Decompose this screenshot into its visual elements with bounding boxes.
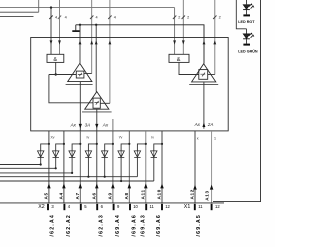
main block U10 [31, 38, 229, 131]
LED ROT pad [243, 14, 250, 16]
wire name labels below [49, 214, 202, 236]
bus slash W1 [173, 16, 176, 20]
terminal ticks [48, 204, 212, 210]
amp T3 [192, 64, 216, 82]
bus slash W2 [182, 16, 185, 20]
svg-text:Iv: Iv [87, 135, 90, 139]
node d3 [79, 143, 81, 145]
bus rail L2 [0, 167, 56, 169]
wire stub top-left [38, 0, 40, 12]
terminal row line [0, 202, 224, 204]
bus rail L4 [0, 176, 137, 178]
arrow out T2 [95, 40, 98, 44]
node d2 [63, 143, 65, 145]
svg-text:LED GRÜN: LED GRÜN [238, 49, 258, 54]
node d6 [128, 143, 130, 145]
slash count labels [55, 15, 221, 19]
svg-text:X2: X2 [38, 204, 45, 210]
wire bus-duct line y12 [0, 11, 39, 13]
diode D6 [121, 144, 129, 151]
node rail B T2 [95, 24, 97, 26]
node U1out [55, 73, 57, 75]
ground symbol [75, 25, 77, 31]
LED GRUEN pad [243, 44, 250, 46]
arrow out T1 [79, 40, 82, 44]
svg-text:Ax: Ax [70, 122, 77, 127]
node d7 [145, 143, 147, 145]
svg-text:12: 12 [165, 204, 170, 209]
svg-text:2: 2 [178, 15, 180, 19]
wire W1 from rail A corner [174, 8, 176, 55]
svg-text:11: 11 [198, 204, 203, 209]
svg-text:/62.A2: /62.A2 [66, 214, 72, 236]
svg-text:A11: A11 [140, 189, 145, 199]
arrow T3 up [202, 123, 205, 128]
svg-text:A6: A6 [91, 192, 96, 199]
bus rail L5 [0, 180, 154, 182]
svg-text:/69.A4: /69.A4 [115, 214, 121, 236]
node d8 [161, 143, 163, 145]
wire T3 right input [208, 74, 215, 76]
wire T2 base down [96, 109, 98, 131]
wire ch1 [48, 131, 50, 203]
bus slash W6 [213, 16, 216, 20]
wire W_a into AND U1 [50, 8, 52, 55]
svg-text:&: & [53, 57, 57, 63]
arrow in W1 [173, 40, 176, 44]
arrow ch3 down [79, 124, 82, 129]
svg-text:A10: A10 [157, 189, 162, 200]
svg-text:A5: A5 [44, 192, 49, 199]
wire ch7 [145, 131, 147, 203]
wire bus-duct line y16 [0, 16, 34, 18]
wire T1 base down [79, 82, 81, 131]
svg-text:4: 4 [55, 15, 57, 19]
amp T1 [68, 63, 92, 81]
diode D7 [137, 144, 145, 151]
wire T1 right input [84, 73, 92, 75]
wire X1 ch9 [194, 131, 196, 203]
LED GRUEN wire [246, 29, 248, 34]
diode center lines [40, 151, 42, 157]
wire T3 base down [203, 82, 205, 129]
wire W2 top [182, 0, 184, 54]
wire T2 output up [95, 25, 97, 92]
wire T1 feed [49, 74, 77, 76]
amp T2 [85, 92, 109, 110]
arrow in W_a [50, 40, 53, 44]
arrow out T3 [203, 40, 206, 44]
svg-text:&: & [177, 57, 181, 63]
A labels rotated [44, 189, 210, 201]
svg-text:4: 4 [65, 15, 67, 19]
svg-text:11: 11 [150, 204, 155, 209]
svg-text:A8: A8 [124, 192, 129, 199]
svg-text:1: 1 [214, 137, 216, 141]
terminal arrows above line [47, 183, 51, 188]
svg-text:Xv: Xv [51, 135, 55, 139]
wire ch4 [96, 131, 98, 203]
svg-text:/69.A3: /69.A3 [140, 214, 146, 236]
arrow out W6 [213, 40, 216, 44]
bus slash W_a [49, 16, 52, 20]
svg-text:x: x [197, 137, 199, 141]
svg-text:X1: X1 [184, 204, 191, 210]
svg-text:Ax: Ax [102, 122, 109, 127]
svg-text:4: 4 [96, 15, 98, 19]
wire ch5 stub [112, 119, 114, 131]
svg-text:Ax: Ax [194, 122, 201, 127]
wire T2 right input [100, 102, 110, 104]
LED ROT wire [246, 0, 248, 4]
bus slash W5 [108, 16, 111, 20]
wire U2 output [179, 62, 199, 74]
arrow in W_b [58, 40, 61, 44]
diode D3 [72, 144, 80, 151]
bus slash W3 [90, 16, 93, 20]
diode D5 [105, 144, 113, 151]
diode D8 [154, 144, 162, 151]
arrow ch4 down [95, 124, 98, 129]
inner box T1 [76, 71, 84, 78]
right border frame [213, 0, 261, 202]
svg-text:A12: A12 [190, 189, 195, 200]
wire to T2 feed [49, 75, 93, 103]
terminal labels [38, 204, 220, 210]
svg-text:/62.A4: /62.A4 [49, 214, 55, 236]
svg-text:LED ROT: LED ROT [238, 20, 255, 24]
svg-text:2: 2 [187, 15, 189, 19]
svg-text:4: 4 [114, 15, 116, 19]
svg-text:10: 10 [133, 204, 138, 209]
ground rail B [76, 25, 204, 64]
node d5 [112, 143, 114, 145]
wire ch2 [63, 131, 65, 203]
diode D4 [88, 144, 96, 151]
node rail B T1 [79, 24, 81, 26]
svg-text:12: 12 [215, 204, 220, 209]
svg-text:2: 2 [219, 15, 221, 19]
bus rail L3 [0, 172, 72, 174]
AND gate U1 [47, 54, 64, 62]
diode D2 [56, 144, 64, 151]
inner box T2 [93, 98, 100, 108]
svg-text:/69.A5: /69.A5 [196, 214, 202, 236]
AND gate U2 [169, 54, 189, 62]
node d4 [96, 143, 98, 145]
wire ch3 [79, 131, 81, 203]
LED GRUEN [243, 34, 250, 39]
inner box T3 [199, 70, 208, 80]
arrow out W3 [90, 40, 93, 44]
svg-text:A7: A7 [75, 192, 80, 199]
bus slash W_b [58, 16, 61, 20]
svg-text:/69.A6: /69.A6 [156, 214, 162, 236]
wire T1 output up [79, 25, 81, 63]
arrow in W2 [182, 40, 185, 44]
wire ch5 [112, 131, 114, 203]
svg-text:A9: A9 [108, 192, 113, 199]
svg-text:A4: A4 [59, 192, 64, 199]
node J1 on rail A [50, 6, 52, 8]
wire top rail A [0, 7, 175, 9]
LED feed left [236, 0, 246, 29]
wire ch8 [161, 131, 163, 203]
svg-text:2A: 2A [207, 122, 214, 127]
LED ROT [243, 5, 250, 10]
svg-text:Yv: Yv [119, 135, 123, 139]
svg-text:Iv: Iv [151, 135, 154, 139]
wire W3 out top [91, 0, 93, 74]
bus rail L1 [0, 164, 41, 166]
wire ch6 [128, 131, 130, 203]
node d1 [48, 143, 50, 145]
svg-text:A13: A13 [204, 190, 209, 201]
svg-text:/69.A6: /69.A6 [131, 214, 137, 236]
wire W_b into AND U1 [59, 0, 61, 54]
wire X1 ch10 [211, 131, 213, 203]
wire W6 top right [214, 0, 216, 75]
wire U1 output [55, 62, 57, 74]
arrow out W5 [109, 40, 112, 44]
svg-text:/62.A3: /62.A3 [99, 214, 105, 236]
svg-text:3A: 3A [85, 122, 91, 127]
wire W5 out top [109, 0, 111, 103]
diode D1 [41, 144, 49, 151]
